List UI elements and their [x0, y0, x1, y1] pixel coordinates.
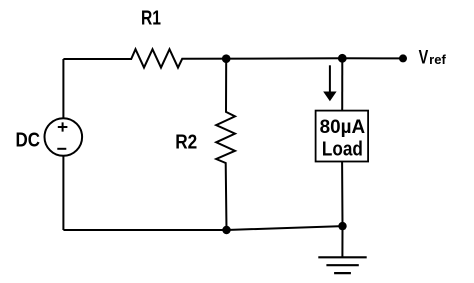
svg-text:R1: R1 — [141, 8, 161, 30]
svg-text:V: V — [419, 47, 429, 68]
svg-text:ref: ref — [429, 53, 446, 67]
svg-text:80µA: 80µA — [320, 117, 366, 138]
svg-text:Load: Load — [322, 139, 363, 161]
svg-text:DC: DC — [15, 130, 40, 152]
svg-text:R2: R2 — [175, 132, 197, 154]
